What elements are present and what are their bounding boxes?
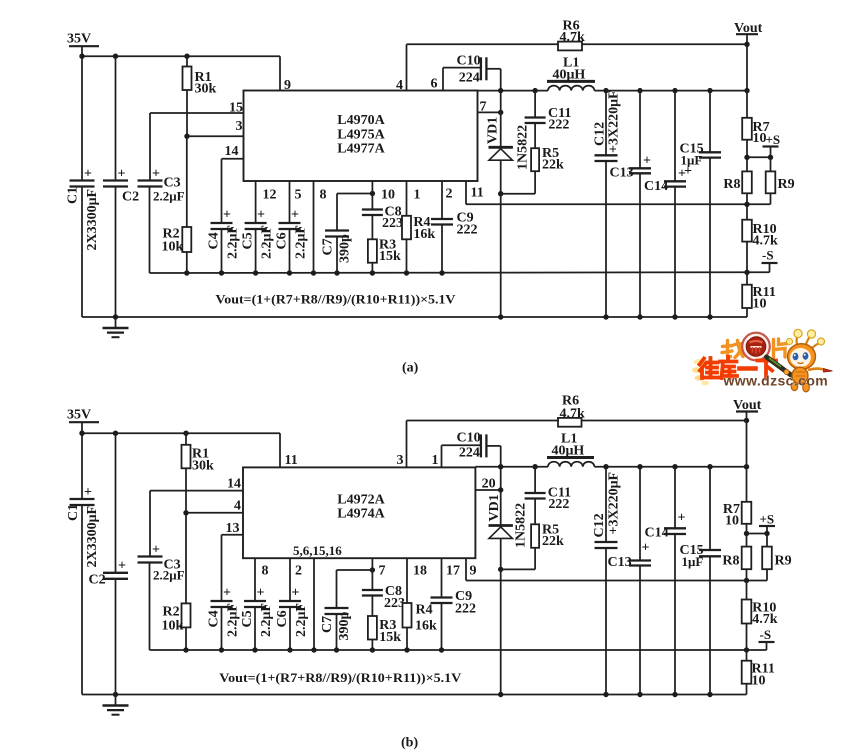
- capacitor C11 222: [525, 91, 572, 149]
- wire top feedback rail: [407, 43, 748, 45]
- resistor R7 10: [742, 118, 769, 158]
- capacitor C7 390p (b): [320, 570, 372, 650]
- svg-text:222: 222: [548, 118, 569, 133]
- svg-text:L4974A: L4974A: [337, 507, 385, 522]
- svg-text:4.7k: 4.7k: [753, 234, 779, 249]
- capacitor C8 223 (pin 7) (b): [362, 558, 405, 616]
- svg-text:20: 20: [482, 477, 496, 492]
- capacitor C9 222 (pin 2): [431, 181, 478, 273]
- svg-text:2: 2: [446, 187, 453, 202]
- wire VD1 anode to ground: [500, 194, 502, 317]
- svg-text:22k: 22k: [542, 534, 564, 549]
- svg-text:13: 13: [226, 521, 240, 536]
- svg-text:40μH: 40μH: [552, 443, 585, 458]
- output terminal Vout (b): [733, 398, 762, 423]
- wire top supply rail (b): [82, 432, 280, 434]
- svg-text:C7: C7: [321, 238, 336, 255]
- capacitor C11 222 (b): [525, 467, 572, 525]
- wire VD1 anode to ground (b): [500, 569, 502, 694]
- junction Vout/rail: [744, 42, 749, 47]
- svg-text:390p: 390p: [338, 234, 353, 263]
- svg-text:8: 8: [320, 188, 327, 203]
- junction pin3/R1/R2: [184, 134, 189, 139]
- svg-text:18: 18: [413, 564, 427, 579]
- svg-text:14: 14: [225, 144, 239, 159]
- svg-text:C12: C12: [592, 513, 607, 537]
- svg-text:Vout=(1+(R7+R8//R9)/(R10+R11)): Vout=(1+(R7+R8//R9)/(R10+R11))×5.1V: [219, 670, 462, 685]
- capacitor C9 222 (pin 17) (b): [431, 558, 477, 650]
- svg-text:-S: -S: [762, 248, 774, 263]
- svg-text:+: +: [152, 167, 160, 182]
- junction C2/rail: [113, 54, 118, 59]
- capacitor C3 2.2uF (b): [138, 491, 185, 650]
- junction ground nodes (b): [113, 692, 713, 697]
- svg-text:10k: 10k: [162, 619, 184, 634]
- svg-text:+: +: [291, 208, 299, 223]
- svg-text:+: +: [118, 559, 126, 574]
- capacitor C6 2.2uF (pin 2) (b): [275, 558, 309, 650]
- svg-text:+3X220μF: +3X220μF: [607, 472, 622, 535]
- junction R8/R9/R10: [744, 202, 749, 207]
- capacitor C4 2.2uF: [207, 208, 241, 274]
- svg-text:+3X220μF: +3X220μF: [607, 90, 622, 153]
- wire pin 9 sense (b): [466, 558, 747, 580]
- svg-text:-S: -S: [760, 627, 772, 642]
- resistor R6 4.7k: [558, 19, 585, 51]
- wire pin 14 (b): [150, 477, 243, 492]
- inductor L1 40uH: [547, 56, 595, 91]
- wire Vout column: [746, 44, 748, 118]
- watermark glyph zhao: [722, 341, 743, 358]
- resistor R1 30k: [183, 56, 217, 136]
- svg-text:223: 223: [382, 216, 403, 231]
- svg-text:15: 15: [229, 101, 243, 116]
- svg-text:C10: C10: [457, 431, 481, 446]
- svg-text:2.2μF: 2.2μF: [294, 603, 309, 637]
- wire pin 14: [222, 144, 244, 223]
- supply terminal 35V (b): [67, 408, 99, 423]
- svg-text:11: 11: [471, 186, 484, 201]
- capacitor C4 2.2uF (b): [207, 586, 241, 651]
- terminal -S (b): [744, 627, 775, 653]
- svg-text:C6: C6: [275, 232, 290, 249]
- diode VD1 1N5822 (b): [487, 467, 529, 570]
- circuit (a): [66, 32, 748, 318]
- svg-text:C1: C1: [66, 187, 81, 204]
- junction sub-rail nodes (b): [183, 647, 444, 652]
- svg-text:2: 2: [295, 564, 302, 579]
- wire pin 4 riser: [396, 44, 407, 93]
- svg-text:2.2μF: 2.2μF: [226, 603, 241, 637]
- svg-text:2.2μF: 2.2μF: [294, 225, 309, 259]
- svg-text:1μF: 1μF: [682, 554, 704, 569]
- capacitor C5 2.2uF (pin 12): [241, 181, 277, 273]
- svg-text:7: 7: [480, 100, 487, 115]
- terminal +S (b): [744, 512, 775, 537]
- capacitor C7 390p: [321, 194, 373, 274]
- capacitor C8 223 (pin 10): [362, 181, 403, 239]
- caption (a): [402, 361, 419, 376]
- ground: [103, 317, 129, 337]
- capacitor C1 2X3300uF: [66, 167, 101, 318]
- svg-text:(b): (b): [401, 736, 418, 751]
- inductor L1 40uH (b): [547, 432, 594, 467]
- svg-text:L4970A: L4970A: [337, 113, 385, 128]
- wire pin 13 (b): [222, 521, 244, 601]
- supply terminal 35V: [67, 32, 99, 47]
- capacitor C10 224 (pin 1) (b): [432, 431, 501, 469]
- svg-text:16k: 16k: [415, 619, 437, 634]
- watermark magnifier glass: [742, 333, 770, 361]
- svg-text:5: 5: [295, 188, 302, 203]
- svg-text:C4: C4: [207, 610, 222, 627]
- svg-text:+: +: [84, 167, 92, 182]
- wire pin 4 (b): [186, 499, 243, 514]
- svg-text:14: 14: [227, 477, 241, 492]
- svg-text:16k: 16k: [413, 227, 435, 242]
- svg-text:C2: C2: [122, 190, 139, 205]
- svg-text:10: 10: [753, 131, 767, 146]
- svg-text:15k: 15k: [379, 249, 401, 264]
- junction C7/pin10: [370, 191, 375, 196]
- junction VD1/R5: [498, 191, 503, 196]
- svg-text:4.7k: 4.7k: [560, 406, 586, 421]
- circuit (b): [66, 394, 792, 751]
- capacitor C6 2.2uF (pin 5): [275, 181, 309, 273]
- svg-text:R8: R8: [722, 554, 739, 569]
- svg-text:224: 224: [459, 446, 480, 461]
- svg-text:30k: 30k: [195, 82, 217, 97]
- svg-text:222: 222: [457, 223, 478, 238]
- wire pin 8: [314, 181, 327, 273]
- capacitor C15 1uF: [680, 91, 722, 317]
- resistor R5 22k: [501, 146, 564, 194]
- svg-text:+: +: [678, 511, 686, 526]
- svg-text:R8: R8: [723, 177, 740, 192]
- svg-text:2X3300μF: 2X3300μF: [85, 189, 100, 251]
- resistor R6 4.7k (b): [558, 394, 585, 427]
- svg-text:C2: C2: [89, 573, 106, 588]
- svg-text:10: 10: [753, 297, 767, 312]
- svg-text:VD1: VD1: [486, 117, 501, 144]
- svg-text:22k: 22k: [542, 158, 564, 173]
- svg-text:6: 6: [431, 77, 438, 92]
- op-amp/regulator IC U1 L4970A/L4975A/L4977A: [244, 91, 478, 182]
- junction main line nodes: [498, 88, 750, 93]
- svg-text:C13: C13: [608, 555, 632, 570]
- svg-text:35V: 35V: [67, 408, 91, 423]
- svg-text:+: +: [223, 208, 231, 223]
- svg-text:R9: R9: [775, 554, 792, 569]
- capacitor C2 (b): [89, 433, 129, 694]
- wire pin 20 (b): [475, 477, 503, 493]
- svg-text:10: 10: [752, 674, 766, 689]
- wire pin 11 riser (b): [280, 433, 298, 468]
- svg-text:8: 8: [262, 564, 269, 579]
- resistor R2 10k (b): [162, 513, 191, 650]
- junction 35V/C1: [79, 54, 84, 59]
- svg-text:www.dzsc.com: www.dzsc.com: [723, 373, 829, 389]
- svg-text:+: +: [292, 586, 300, 601]
- resistor R10 4.7k: [742, 204, 778, 272]
- svg-text:C5: C5: [240, 610, 255, 627]
- svg-text:VD1: VD1: [487, 494, 502, 521]
- resistor R11 10 (b): [742, 650, 775, 695]
- wire pin 15: [150, 101, 244, 116]
- output terminal Vout: [734, 21, 763, 44]
- watermark text weikuyixia: [700, 357, 777, 379]
- capacitor C12 3X220uF (b): [592, 467, 622, 695]
- svg-text:222: 222: [548, 497, 569, 512]
- resistor R7 10 (b): [723, 502, 751, 534]
- svg-text:R2: R2: [163, 605, 180, 620]
- wire ground rail: [82, 316, 747, 318]
- svg-text:C5: C5: [241, 232, 256, 249]
- svg-text:224: 224: [459, 71, 480, 86]
- svg-text:2.2μF: 2.2μF: [259, 603, 274, 637]
- resistor R3 15k: [368, 238, 401, 274]
- svg-text:1N5822: 1N5822: [516, 125, 531, 170]
- svg-text:10: 10: [725, 514, 739, 529]
- svg-text:+S: +S: [766, 132, 781, 147]
- svg-text:4: 4: [234, 499, 241, 514]
- junction sub-rail nodes: [184, 270, 445, 275]
- formula Vout (b): [219, 670, 462, 685]
- svg-text:10: 10: [381, 188, 395, 203]
- svg-text:+: +: [257, 586, 265, 601]
- resistor R9: [747, 157, 795, 204]
- capacitor C1 2X3300uF (b): [66, 485, 100, 695]
- svg-text:C12: C12: [593, 122, 608, 146]
- junction R1/rail: [184, 54, 189, 59]
- svg-text:2.2μF: 2.2μF: [153, 568, 185, 583]
- capacitor C14: [644, 91, 686, 317]
- wire pin 5,6,15,16 (b): [313, 558, 315, 650]
- resistor R11 10: [742, 272, 776, 317]
- svg-text:+: +: [684, 164, 692, 179]
- op-amp/regulator IC U2 L4972A/L4974A: [243, 467, 475, 558]
- wire 35V stem to C1 (b): [81, 422, 83, 499]
- ground (b): [103, 695, 129, 715]
- svg-text:2X3300μF: 2X3300μF: [85, 506, 100, 568]
- svg-text:+: +: [118, 167, 126, 182]
- formula Vout (a): [216, 292, 457, 307]
- svg-text:C4: C4: [207, 232, 222, 249]
- svg-text:L4975A: L4975A: [337, 127, 385, 142]
- resistor R2 10k: [162, 136, 192, 273]
- wire switch-node/output line: [478, 90, 748, 92]
- wire top feedback rail (b): [407, 420, 747, 422]
- svg-text:+: +: [152, 543, 160, 558]
- terminal +S: [744, 132, 780, 160]
- svg-text:7: 7: [379, 564, 386, 579]
- svg-text:390p: 390p: [337, 612, 352, 641]
- svg-text:40μH: 40μH: [553, 67, 586, 82]
- junction VD1/R5 (b): [498, 567, 503, 572]
- capacitor C3 2.2uF: [138, 113, 185, 273]
- svg-text:2.2μF: 2.2μF: [226, 225, 241, 259]
- junction C7/pin7 (b): [370, 567, 375, 572]
- watermark url www.dzsc.com: [723, 373, 829, 389]
- svg-text:17: 17: [446, 564, 460, 579]
- svg-text:4.7k: 4.7k: [752, 612, 778, 627]
- wire pin 11 sense: [466, 181, 747, 204]
- svg-text:C13: C13: [610, 166, 634, 181]
- capacitor C13 (b): [608, 467, 652, 695]
- svg-text:222: 222: [455, 602, 476, 617]
- wire pin 7: [478, 100, 504, 116]
- svg-text:15k: 15k: [379, 630, 401, 645]
- junction main line nodes (b): [498, 464, 749, 469]
- svg-text:4: 4: [396, 78, 403, 93]
- wire pin 3: [187, 119, 244, 136]
- wire switch-node/output line (b): [475, 466, 746, 468]
- junction R8/R9/R10 (b): [744, 578, 749, 583]
- svg-text:L4972A: L4972A: [337, 492, 385, 507]
- svg-text:C1: C1: [66, 504, 81, 521]
- svg-text:11: 11: [285, 453, 298, 468]
- svg-text:10k: 10k: [162, 240, 184, 255]
- svg-text:4.7k: 4.7k: [560, 30, 586, 45]
- svg-text:5,6,15,16: 5,6,15,16: [293, 543, 342, 558]
- watermark magnifier handle: [767, 357, 792, 375]
- wire analog return rail: [150, 271, 748, 274]
- svg-text:(a): (a): [402, 361, 419, 376]
- svg-text:+: +: [257, 208, 265, 223]
- resistor R5 22k (b): [501, 523, 564, 570]
- svg-text:C10: C10: [457, 54, 481, 69]
- svg-text:+: +: [642, 541, 650, 556]
- watermark mascot: [784, 329, 833, 392]
- terminal -S: [744, 248, 777, 275]
- svg-text:+S: +S: [760, 512, 775, 527]
- svg-text:3: 3: [397, 453, 404, 468]
- watermark shadow blobs: [692, 359, 709, 385]
- svg-text:C14: C14: [644, 179, 668, 194]
- svg-text:1: 1: [432, 453, 439, 468]
- capacitor C2: [103, 56, 139, 317]
- resistor R8: [723, 157, 751, 204]
- svg-text:+: +: [643, 154, 651, 169]
- capacitor C15 1uF (b): [680, 467, 722, 695]
- svg-text:L4977A: L4977A: [337, 142, 385, 157]
- svg-text:30k: 30k: [192, 459, 214, 474]
- resistor R10 4.7k (b): [742, 581, 778, 651]
- wire 35V stem to C1: [81, 46, 83, 180]
- svg-text:+: +: [84, 485, 92, 500]
- resistor R3 15k (b): [368, 616, 401, 650]
- capacitor C13: [610, 91, 652, 317]
- svg-text:C6: C6: [275, 610, 290, 627]
- wire ground rail (b): [82, 694, 747, 696]
- svg-text:C14: C14: [645, 526, 669, 541]
- svg-text:12: 12: [263, 188, 277, 203]
- junction pin4/R1/R2 (b): [183, 510, 188, 515]
- wire pin 3 riser (b): [397, 421, 407, 469]
- svg-text:3: 3: [236, 119, 243, 134]
- svg-text:2.2μF: 2.2μF: [153, 189, 185, 204]
- caption (b): [401, 736, 418, 751]
- resistor R9 (b): [747, 534, 792, 581]
- wire pin 9 riser: [280, 56, 291, 93]
- svg-text:35V: 35V: [67, 32, 91, 47]
- wire Vout column (b): [746, 421, 748, 502]
- svg-text:2.2μF: 2.2μF: [260, 225, 275, 259]
- resistor R4 16k (pin 18) (b): [403, 558, 438, 650]
- wire top supply rail: [82, 55, 280, 57]
- junction ground nodes: [113, 314, 713, 319]
- svg-text:C7: C7: [320, 616, 335, 633]
- svg-text:9: 9: [470, 564, 477, 579]
- resistor R8 (b): [722, 534, 751, 581]
- resistor R1 30k (b): [182, 433, 215, 513]
- diode VD1 1N5822: [486, 91, 531, 194]
- capacitor C14 (b): [645, 467, 687, 695]
- capacitor C10 224 (pin 6): [431, 54, 501, 92]
- wire analog return rail (b): [150, 649, 747, 651]
- watermark glyph pian: [774, 339, 788, 358]
- svg-text:1N5822: 1N5822: [514, 503, 529, 548]
- svg-text:+: +: [223, 586, 231, 601]
- resistor R4 16k (pin 1): [402, 181, 435, 273]
- svg-text:R4: R4: [416, 603, 433, 618]
- svg-text:1: 1: [414, 188, 421, 203]
- svg-text:Vout=(1+(R7+R8//R9)/(R10+R11)): Vout=(1+(R7+R8//R9)/(R10+R11))×5.1V: [216, 292, 457, 307]
- capacitor C12 3X220uF: [593, 90, 622, 317]
- watermark dzsc.com logo: [692, 329, 833, 392]
- capacitor C5 2.2uF (pin 8) (b): [240, 558, 274, 650]
- svg-text:R9: R9: [778, 177, 795, 192]
- junction rail nodes (b): [79, 431, 188, 436]
